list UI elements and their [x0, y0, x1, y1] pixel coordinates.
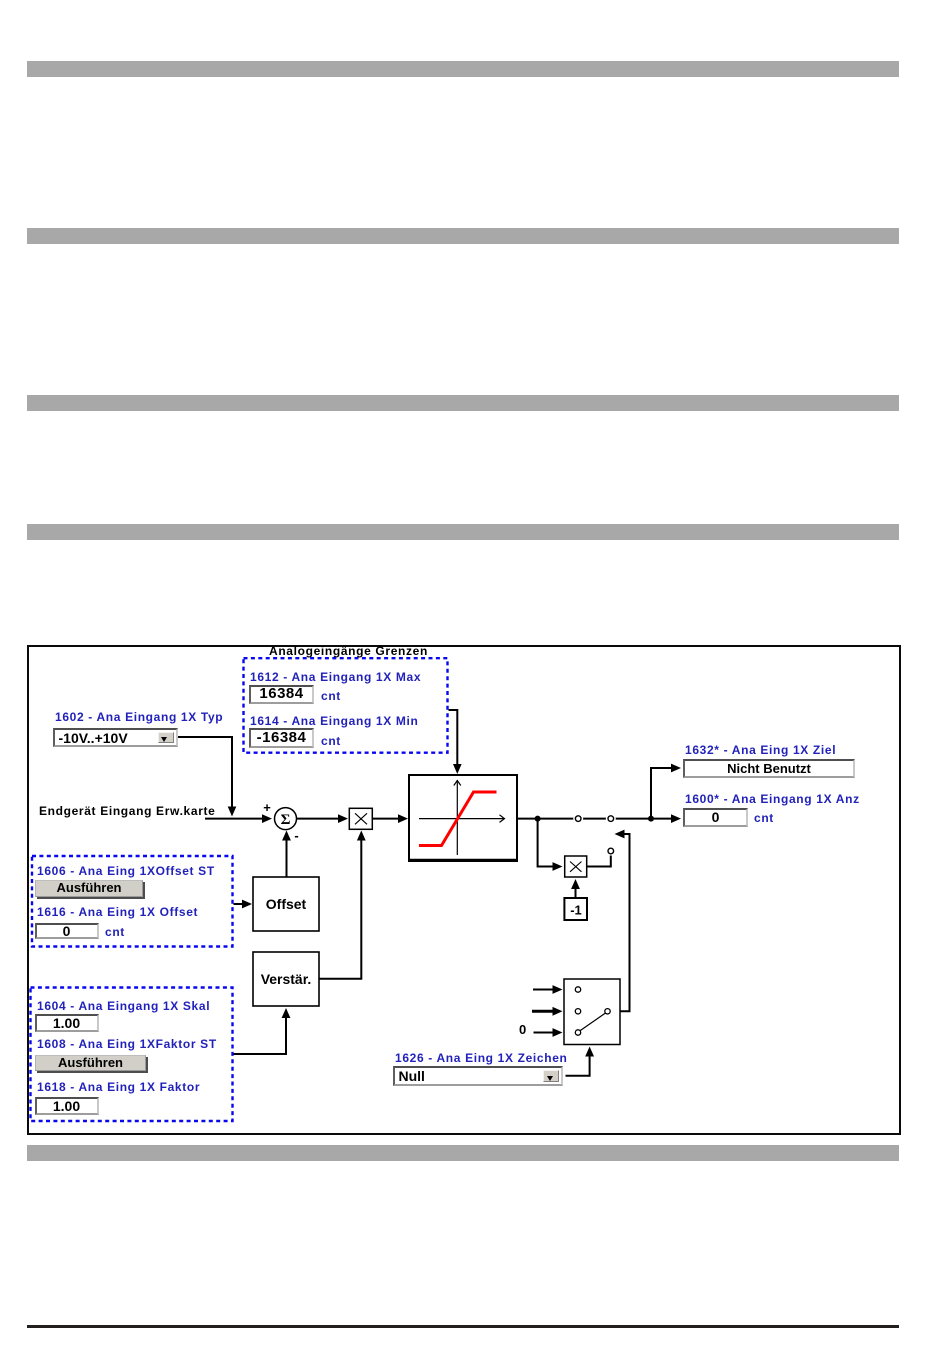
wire 1606 box to offset: [234, 903, 245, 905]
offset block: [253, 877, 319, 931]
wire 1604 box to verstaerker: [234, 1017, 287, 1054]
svg-text:Σ: Σ: [281, 812, 291, 828]
label 1614: [250, 715, 419, 727]
footer black rule: [27, 1325, 899, 1328]
junction node 2: [648, 816, 654, 822]
svg-text:+: +: [263, 800, 271, 815]
arrow from combo down: [228, 807, 237, 817]
dashed parameter group box Grenzen: [244, 658, 448, 753]
arrow switch input 1: [553, 985, 563, 994]
wire branch to 1632: [651, 768, 673, 819]
label 1618: [37, 1081, 200, 1093]
label 1608: [37, 1038, 217, 1050]
value field 1600: [683, 808, 748, 827]
label 1600: [685, 793, 860, 805]
combobox 1626 Null: [393, 1066, 563, 1086]
diagram frame: [27, 645, 901, 1135]
arrow control left: [615, 830, 625, 839]
dashed parameter group box 1604/1608/1618: [31, 988, 233, 1122]
arrow -1 into inverter: [571, 879, 580, 889]
label 1616: [37, 906, 198, 918]
value field 1616: [35, 923, 99, 940]
contact circle second: [606, 814, 616, 824]
node label Endgeraet Eingang Erw.karte: [39, 805, 216, 817]
label 1632: [685, 744, 836, 756]
arrow into offset box: [242, 900, 252, 909]
label 1602: [55, 711, 223, 723]
wire combo 1602 to main: [178, 737, 232, 808]
button Ausfuehren 1608: [35, 1055, 146, 1071]
arrow into verstaerker box: [282, 1008, 291, 1018]
arrow switch input 2: [553, 1007, 563, 1016]
summation node: [263, 800, 298, 843]
arrow into 1600 field: [671, 814, 681, 823]
header rule bar 4: [27, 524, 899, 540]
junction node 1: [535, 816, 541, 822]
multiplier X2 inverter: [565, 856, 587, 877]
svg-text:-: -: [294, 828, 298, 843]
wire switch input 3: [534, 1032, 555, 1034]
header rule bar 2: [27, 228, 899, 244]
unit cnt 1614: [321, 735, 341, 747]
header rule bar 3: [27, 395, 899, 411]
dashed parameter group box 1606/1616: [32, 856, 233, 947]
combobox 1602 -10V..+10V: [53, 728, 178, 747]
arrow into inverter: [553, 862, 563, 871]
wire -1 to inverter: [575, 888, 577, 898]
svg-text:Verstär.: Verstär.: [261, 971, 312, 987]
arrow combo 1626 into switch: [585, 1047, 594, 1057]
label 1626: [395, 1052, 568, 1064]
arrow into limiter top: [453, 764, 462, 774]
sign selector switch block: [564, 979, 620, 1045]
label 1604: [37, 1000, 210, 1012]
verstaerker block: [253, 952, 319, 1006]
constant -1 block: [564, 898, 587, 920]
svg-text:Offset: Offset: [266, 896, 307, 912]
wire limiter output: [517, 818, 673, 820]
button Ausfuehren 1606: [35, 880, 143, 897]
wire main input: [205, 818, 263, 820]
wire branch down to inverter: [538, 819, 554, 867]
wire mult to limiter: [372, 818, 400, 820]
unit cnt 1616: [105, 926, 125, 938]
arrow offset into sum: [282, 831, 291, 841]
arrow into limiter: [398, 814, 408, 823]
value field 1632 Nicht Benutzt: [683, 759, 855, 778]
title Analogeingaenge Grenzen: [269, 645, 428, 657]
contact circle inverter output: [608, 848, 614, 854]
wire inverter output to contact: [587, 856, 611, 867]
arrow into mult: [338, 814, 348, 823]
label 1612: [250, 671, 421, 683]
label 1606: [37, 865, 215, 877]
value field 1614: [249, 728, 314, 748]
value field 1618: [35, 1097, 99, 1115]
wire offset to sum: [286, 840, 288, 878]
wire grenzen box to limiter top: [449, 710, 458, 766]
wire verstaerker to mult: [319, 840, 361, 979]
arrow into 1632 field: [671, 764, 681, 773]
arrow verstaerker into mult: [357, 831, 366, 841]
value field 1604: [35, 1014, 99, 1032]
wire switch input 1: [533, 989, 554, 991]
footer rule bar 5: [27, 1145, 899, 1161]
value field 1612: [249, 685, 314, 704]
label 0 at switch input: [519, 1024, 527, 1036]
unit cnt 1612: [321, 690, 341, 702]
contact circle direct path: [573, 814, 583, 824]
wire sum to mult: [297, 818, 340, 820]
wire switch output control: [611, 834, 630, 1011]
multiplier X1: [349, 808, 372, 829]
arrow into sum: [262, 814, 272, 823]
wire combo 1626 to switch: [566, 1056, 590, 1076]
unit cnt 1600: [754, 812, 774, 824]
arrow switch input 3: [553, 1028, 563, 1037]
limiter block: [409, 775, 517, 861]
wire switch input 2: [532, 1010, 554, 1013]
header rule bar 1: [27, 61, 899, 77]
svg-text:-1: -1: [570, 903, 582, 918]
